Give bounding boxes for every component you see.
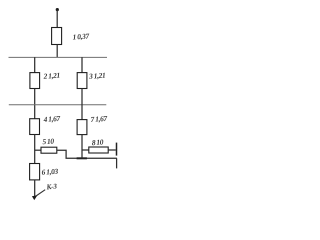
- wire X2 through bus 2 to impedance X4: [34, 89, 36, 119]
- impedance X8 box: [89, 147, 108, 153]
- svg-text:5 10: 5 10: [42, 136, 55, 146]
- wire from source dot to impedance X1: [56, 10, 58, 28]
- wire X7 down to junction bar: [81, 135, 83, 159]
- impedance X4 box: [30, 119, 40, 135]
- bus 1: [9, 56, 108, 58]
- svg-text:6 1,03: 6 1,03: [41, 167, 58, 177]
- svg-text:1 0,37: 1 0,37: [72, 31, 89, 41]
- svg-text:2 1,21: 2 1,21: [42, 71, 60, 81]
- svg-text:4 1,67: 4 1,67: [42, 114, 60, 124]
- wire from X1 to bus 1: [56, 45, 58, 58]
- svg-text:3 1,21: 3 1,21: [88, 71, 106, 81]
- svg-text:К-3: К-3: [45, 181, 58, 191]
- wire tap to impedance X5: [35, 149, 41, 151]
- wire from X5 stepping down and right to far drop: [57, 150, 117, 158]
- wire X4 down to impedance X6: [34, 135, 36, 164]
- impedance X6 box: [30, 164, 40, 180]
- wire tap to impedance X8: [82, 149, 89, 151]
- impedance X3 box: [77, 73, 87, 89]
- wire X6 down to arrow: [34, 180, 36, 196]
- svg-text:7 1,67: 7 1,67: [90, 114, 107, 124]
- leader slash for K-3: [36, 190, 45, 196]
- wire bus1 to impedance X3: [81, 57, 83, 72]
- bus 2: [9, 104, 107, 106]
- arrowhead to short-circuit point: [32, 195, 38, 200]
- wire bus1 to impedance X2: [34, 57, 36, 72]
- wire X8 to right terminal bar: [108, 149, 116, 151]
- impedance X7 box: [77, 120, 87, 135]
- wire X3 through bus 2 to impedance X7: [81, 89, 83, 120]
- impedance X5 box: [41, 147, 57, 153]
- impedance X1 box: [52, 28, 62, 45]
- source node dot: [56, 8, 59, 11]
- impedance X2 box: [30, 73, 40, 89]
- right terminal bar: [116, 143, 118, 156]
- junction bar under X7 branch: [77, 157, 87, 159]
- svg-text:8 10: 8 10: [92, 137, 105, 147]
- wire stub from bottom run down at right: [116, 158, 118, 168]
